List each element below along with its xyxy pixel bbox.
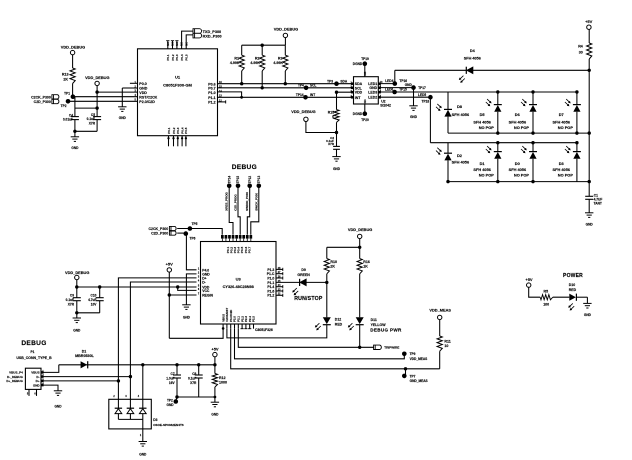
svg-text:TANT: TANT — [594, 201, 602, 205]
wire SCL net P0.7 to U2 — [218, 87, 354, 89]
wire U2 LED3 to LED row1 bus — [378, 91, 577, 93]
wire U3 VCC jog — [178, 287, 197, 290]
svg-text:C2CK_P300: C2CK_P300 — [31, 95, 51, 99]
svg-text:TP15: TP15 — [236, 176, 240, 184]
svg-text:R1: R1 — [234, 56, 239, 60]
wire VDD_MEAS to R11 — [439, 320, 441, 336]
wire VDD_DEBUG to U3 VDD — [77, 286, 197, 288]
wire +5V to U3 REGIN — [169, 294, 196, 296]
ground after D10 — [583, 302, 591, 304]
svg-text:GREEN: GREEN — [297, 273, 310, 277]
svg-text:GND: GND — [405, 83, 413, 87]
svg-text:TXD_P300: TXD_P300 — [203, 30, 222, 34]
svg-text:R3: R3 — [278, 56, 283, 60]
svg-text:GND: GND — [333, 167, 341, 171]
svg-text:D8: D8 — [457, 104, 463, 109]
svg-text:NC: NC — [166, 42, 170, 46]
svg-text:X7R: X7R — [190, 381, 197, 385]
svg-text:R12: R12 — [219, 376, 226, 380]
svg-text:GND: GND — [71, 146, 79, 150]
svg-text:P0.1: P0.1 — [166, 54, 170, 61]
svg-text:VDD_DEBUG: VDD_DEBUG — [85, 75, 109, 80]
svg-text:U1: U1 — [175, 75, 181, 80]
resistor R15 0 ohm on VDD — [337, 91, 354, 93]
svg-text:NC: NC — [175, 42, 179, 46]
U3 bottom NC ticks — [241, 328, 244, 330]
svg-text:DEBUG PWR: DEBUG PWR — [370, 328, 402, 333]
svg-text:GND: GND — [167, 403, 175, 407]
wire D+ down to TVS — [117, 381, 119, 399]
LED D1 SFH 4056 row2 — [496, 141, 499, 144]
svg-text:TP18: TP18 — [422, 100, 430, 104]
wire U2 GND to TP17 — [378, 87, 413, 89]
wire D12 to U3 C2CK pin — [227, 325, 327, 338]
svg-text:DEBUG: DEBUG — [21, 340, 46, 347]
svg-text:GND: GND — [33, 383, 41, 387]
svg-text:TP9: TP9 — [410, 352, 416, 356]
svg-text:SCL: SCL — [310, 83, 316, 87]
test point TP7 GND_MEAS — [405, 369, 407, 376]
wire D11 down to TRIPWIRE net — [359, 325, 361, 348]
svg-text:POWER: POWER — [563, 273, 583, 279]
svg-text:R4: R4 — [578, 45, 583, 49]
svg-text:TP7: TP7 — [410, 374, 416, 378]
wire LED4 net up to D4 — [394, 70, 396, 83]
svg-text:GND: GND — [410, 115, 418, 119]
svg-text:VCC: VCC — [202, 289, 210, 293]
U1 bottom pins stubs — [168, 136, 170, 147]
svg-text:TP19: TP19 — [361, 57, 369, 61]
wire U1 P0.0 stub — [130, 82, 138, 84]
svg-text:VDD_MEAS: VDD_MEAS — [429, 307, 451, 312]
LED D6 SFH 4056 row1 — [531, 90, 534, 93]
svg-text:CSOE-SP0032EN4T6: CSOE-SP0032EN4T6 — [153, 423, 184, 427]
svg-text:D6: D6 — [515, 112, 521, 117]
header pads row — [221, 235, 224, 239]
svg-text:VDD_DEBUG: VDD_DEBUG — [348, 227, 372, 232]
svg-text:GND: GND — [369, 86, 377, 90]
svg-text:TP5: TP5 — [192, 222, 198, 226]
svg-text:P0.2: P0.2 — [171, 54, 175, 61]
wire C1 to ground — [588, 199, 590, 213]
wire LED row1 bottom bus — [448, 132, 589, 134]
svg-text:GND: GND — [54, 404, 62, 408]
wire TP2 to U1 P2.0/C2D — [68, 100, 138, 102]
P1 pin pads — [41, 371, 44, 374]
svg-text:2: 2 — [198, 272, 200, 274]
wire D+ net — [41, 380, 118, 382]
led D11 YELLOW DEBUG PWR — [356, 317, 364, 324]
svg-text:D1: D1 — [82, 349, 87, 353]
svg-text:D+_DEBUG: D+_DEBUG — [6, 379, 23, 383]
svg-text:VDD_DEBUG: VDD_DEBUG — [61, 45, 85, 50]
svg-text:GND_MEAS: GND_MEAS — [410, 379, 428, 383]
wire TP19 to U2 NC top — [364, 64, 366, 77]
svg-text:P0.5: P0.5 — [185, 54, 189, 61]
svg-text:D1: D1 — [480, 161, 486, 166]
ground below TP17 — [409, 105, 417, 107]
wire U3 pin to TP9 VDD_MEAS — [235, 329, 405, 359]
wire R3 to SDA net — [284, 71, 286, 84]
svg-text:P1.1: P1.1 — [208, 96, 215, 100]
svg-text:P1.0: P1.0 — [208, 91, 215, 95]
wire R12 to ground — [214, 387, 216, 402]
svg-text:DEBUG: DEBUG — [232, 164, 257, 171]
wire TP1 to U1 RST/C2CK — [73, 96, 138, 98]
wire D- net — [41, 376, 130, 378]
wire +5V to U3 VBUS bottom pin — [169, 329, 223, 339]
svg-text:NO POP: NO POP — [558, 172, 574, 177]
svg-text:USB_CONN_TYPE_B: USB_CONN_TYPE_B — [16, 356, 52, 360]
svg-text:TP4: TP4 — [298, 83, 304, 87]
svg-text:YELLOW: YELLOW — [371, 323, 387, 327]
svg-text:NO POP: NO POP — [558, 125, 574, 130]
svg-text:D3: D3 — [559, 161, 565, 166]
svg-text:C2D_P300: C2D_P300 — [34, 100, 51, 104]
svg-text:LED5: LED5 — [418, 93, 426, 97]
svg-text:C8051F300-GM: C8051F300-GM — [163, 82, 192, 87]
ground below R12 — [211, 401, 219, 403]
svg-text:5: 5 — [198, 286, 200, 288]
svg-text:NO POP: NO POP — [514, 125, 530, 130]
connector RXD_P300 — [193, 33, 202, 38]
svg-text:P0.4: P0.4 — [180, 54, 184, 61]
wire R4 down the LED return rail — [588, 59, 590, 196]
wire R15 to VDD_DEBUG — [306, 121, 337, 132]
svg-text:CY326-48C28N98: CY326-48C28N98 — [223, 285, 254, 289]
svg-text:D4: D4 — [470, 49, 476, 53]
wire +5V to R5 — [529, 287, 541, 297]
wire TP6 down to U3 P4.0 — [177, 232, 186, 234]
wire D4 to +5V rail — [473, 69, 589, 71]
svg-text:NC: NC — [363, 99, 367, 103]
svg-text:4.99K: 4.99K — [273, 61, 283, 65]
svg-text:16V: 16V — [169, 381, 176, 385]
ic U1 C8051F300-GM — [138, 49, 218, 136]
svg-text:VDD_MEAS: VDD_MEAS — [410, 357, 428, 361]
svg-text:R16: R16 — [363, 260, 370, 264]
U3 right NC stubs — [276, 268, 283, 270]
svg-text:P1.2: P1.2 — [267, 294, 274, 298]
svg-text:TP13: TP13 — [257, 176, 261, 184]
capacitor C2 0.1uF X7R — [336, 133, 338, 147]
svg-text:+5V: +5V — [585, 19, 593, 24]
LED D8 SFH 4056 row1 — [447, 92, 449, 109]
wire U1 P0.5 to RXD connector — [186, 35, 193, 49]
ground below D3 — [139, 441, 147, 443]
wire VBUS to D13 — [41, 365, 59, 373]
svg-text:TP20: TP20 — [361, 118, 369, 122]
svg-text:D3: D3 — [153, 418, 157, 422]
ground below C1 — [585, 212, 593, 214]
svg-text:TP2: TP2 — [167, 398, 173, 402]
wire C4 branch from TP1 line — [74, 97, 76, 117]
svg-text:TP15: TP15 — [399, 88, 407, 92]
svg-text:R15: R15 — [328, 111, 334, 115]
svg-text:NO POP: NO POP — [479, 172, 495, 177]
resistor R16 1K — [357, 259, 362, 274]
LED D3 SFH 4056 row2 — [575, 141, 578, 144]
svg-text:D10: D10 — [569, 283, 575, 287]
wire VDD_DEBUG down to caps — [76, 280, 78, 298]
wire U1 VDD pin — [97, 91, 137, 93]
svg-text:2: 2 — [113, 396, 115, 398]
svg-text:D5: D5 — [480, 112, 486, 117]
ground below C4 C5 — [71, 136, 79, 138]
svg-text:SFH 4056: SFH 4056 — [452, 159, 470, 164]
ground at U1 GND pin — [118, 106, 126, 108]
svg-text:R5: R5 — [543, 290, 548, 294]
svg-text:D2: D2 — [457, 153, 463, 158]
svg-text:NO POP: NO POP — [479, 125, 495, 130]
svg-text:DGND: DGND — [353, 62, 363, 66]
svg-text:1: 1 — [140, 435, 142, 437]
svg-text:GND: GND — [73, 328, 81, 332]
U1 top pins NC stubs — [167, 41, 169, 49]
svg-text:SWCK_P300: SWCK_P300 — [254, 193, 258, 211]
wire +5V down to REGIN and bottom — [168, 272, 170, 338]
wire R10 to D12 — [326, 274, 328, 318]
svg-text:RST/C2CK: RST/C2CK — [139, 95, 157, 99]
wire TP18 down to LED row2 bus — [429, 97, 431, 143]
wire U2 LED2 to TP18 — [378, 96, 430, 98]
svg-text:10: 10 — [444, 344, 448, 348]
svg-text:1000: 1000 — [219, 381, 227, 385]
svg-text:SDA: SDA — [340, 79, 347, 83]
svg-text:D0: D0 — [515, 161, 520, 166]
wire D- down to TVS — [129, 377, 131, 400]
svg-text:C2CK_P300: C2CK_P300 — [149, 227, 169, 231]
test point TP9 VDD_MEAS — [402, 352, 407, 357]
svg-text:R2: R2 — [255, 56, 260, 60]
wire TP14 to header — [229, 186, 233, 235]
svg-text:2K: 2K — [63, 78, 68, 82]
ground below C9 C10 — [73, 317, 81, 319]
svg-text:GND: GND — [586, 223, 594, 227]
wire GND_MEAS horizontal — [231, 329, 440, 369]
svg-text:+5V: +5V — [211, 346, 219, 351]
wire +5V down to TVS — [142, 365, 144, 400]
TVS diode 2 in D3 — [129, 399, 131, 408]
ground below C2 — [332, 156, 340, 158]
svg-text:R11: R11 — [444, 339, 450, 343]
wire cap rail — [75, 107, 97, 109]
svg-text:RED: RED — [335, 322, 343, 326]
svg-text:7: 7 — [198, 294, 200, 296]
svg-text:TP17: TP17 — [418, 86, 426, 90]
svg-text:2K: 2K — [330, 265, 335, 269]
svg-text:SFH 4056: SFH 4056 — [553, 120, 571, 125]
svg-text:SFH 4056: SFH 4056 — [464, 56, 481, 60]
test point TP20 DGND at U2 bottom — [364, 104, 366, 114]
wire D- riser to U3 — [130, 282, 196, 377]
TVS array D3 CSOE-SP0032EN4T6 box — [109, 399, 152, 429]
svg-text:RXD_P300: RXD_P300 — [203, 35, 222, 39]
svg-text:P1.2: P1.2 — [208, 100, 215, 104]
wire TP13 to header — [251, 186, 259, 235]
svg-text:TP6: TP6 — [190, 236, 196, 240]
led D12 RED — [323, 317, 331, 324]
test point TP2 GND bottom — [176, 397, 177, 401]
svg-text:VDD_DEBUG: VDD_DEBUG — [291, 109, 315, 114]
svg-text:3: 3 — [125, 396, 127, 398]
wire C9 C10 bottoms to ground — [76, 301, 78, 313]
svg-text:P0.0: P0.0 — [139, 82, 146, 86]
svg-text:1K: 1K — [363, 265, 368, 269]
svg-text:GND: GND — [139, 452, 147, 456]
wire D9 to R10 D12 node — [306, 281, 327, 283]
svg-text:C8051F326: C8051F326 — [255, 328, 273, 332]
svg-text:4: 4 — [198, 280, 200, 283]
ic U2 SI1042 — [354, 77, 379, 104]
svg-text:C2D_P300: C2D_P300 — [151, 232, 168, 236]
svg-text:LED6: LED6 — [385, 88, 393, 92]
svg-text:30: 30 — [579, 51, 583, 55]
svg-text:INT: INT — [310, 93, 315, 97]
junction +5V rail to TVS — [141, 363, 144, 366]
wire caps to ground — [74, 120, 76, 132]
svg-text:GND: GND — [119, 116, 127, 120]
LED D0 SFH 4056 row2 — [531, 141, 534, 144]
P1 shield stubs — [28, 389, 30, 396]
wire TP12 to header — [247, 186, 249, 235]
wire SDA net P0.6 to U2 — [218, 83, 354, 85]
svg-text:D12: D12 — [335, 318, 341, 322]
TVS diode 3 in D3 — [142, 399, 144, 408]
ground below P1 — [54, 390, 62, 392]
svg-text:D7: D7 — [559, 112, 564, 117]
svg-text:3: 3 — [198, 276, 200, 278]
LED D7 SFH 4056 row1 — [575, 90, 578, 93]
wire U1 GND pin to ground — [122, 87, 137, 89]
svg-text:P0.3: P0.3 — [175, 54, 179, 61]
svg-text:TRIPWIRE: TRIPWIRE — [384, 346, 399, 350]
wire TP17 to ground — [413, 88, 415, 106]
wire D+ riser to U3 — [118, 278, 196, 381]
wire R11 down to GND_MEAS net — [439, 351, 441, 369]
wire TVS common — [117, 414, 119, 420]
svg-text:TP14: TP14 — [227, 176, 231, 184]
svg-text:10V: 10V — [91, 302, 98, 306]
svg-text:NO POP: NO POP — [514, 172, 530, 177]
svg-text:RED: RED — [569, 288, 577, 292]
svg-text:SWDIO_P300: SWDIO_P300 — [245, 192, 249, 211]
svg-text:SI1042: SI1042 — [380, 104, 391, 108]
svg-text:REGIN: REGIN — [202, 294, 213, 298]
svg-text:U3: U3 — [236, 276, 242, 281]
svg-text:1: 1 — [198, 268, 200, 270]
wire LED row2 bottom bus — [448, 181, 589, 183]
wire R5 to D10 — [553, 296, 570, 298]
svg-text:GND: GND — [183, 315, 191, 319]
svg-text:DGND: DGND — [353, 112, 363, 116]
svg-text:SFH 4056: SFH 4056 — [473, 120, 491, 125]
wire TP15 to header — [238, 186, 240, 235]
svg-text:+5V: +5V — [166, 262, 174, 267]
wire VDD_DEBUG to R13 — [72, 55, 74, 68]
wire VDD_DEBUG to R10 R16 rail — [359, 239, 361, 259]
header pad stubs into U3 — [221, 239, 223, 242]
svg-text:GND: GND — [584, 313, 592, 317]
svg-text:X7R: X7R — [328, 142, 335, 146]
svg-text:D9: D9 — [301, 268, 306, 272]
svg-text:LED3: LED3 — [368, 91, 377, 95]
svg-text:R10: R10 — [330, 260, 337, 264]
wire R13 to TP1 — [72, 84, 74, 97]
svg-text:R13: R13 — [62, 72, 69, 76]
wire VDD_DEBUG rail to resistors — [284, 38, 286, 46]
svg-text:GND: GND — [211, 413, 219, 417]
resistor R11 10 — [437, 336, 442, 351]
wire +5V to R4 — [588, 29, 590, 43]
wire INT net P1.1 to U2 — [218, 96, 354, 98]
svg-text:P0.7: P0.7 — [208, 87, 215, 91]
svg-text:XRES_PROG: XRES_PROG — [225, 191, 229, 210]
wire C2 to ground — [336, 149, 338, 156]
wire U3 P1.1 to D9 — [276, 281, 300, 283]
svg-text:P1.0: P1.0 — [267, 276, 274, 280]
svg-text:VDD_DEBUG: VDD_DEBUG — [65, 270, 89, 275]
svg-text:MBR0530L: MBR0530L — [75, 354, 95, 358]
connector P1 USB type B — [25, 368, 41, 389]
wire U3 GND pin to ground — [186, 274, 196, 305]
wire TVS to ground pin1 — [142, 419, 144, 441]
wire R16 to D11 — [359, 274, 361, 318]
svg-text:LED2: LED2 — [368, 96, 377, 100]
wire C7 C8 bottoms tied — [176, 378, 178, 397]
svg-text:P1: P1 — [31, 350, 35, 354]
U2 pin pads — [351, 82, 354, 85]
svg-text:VDD: VDD — [355, 91, 363, 95]
svg-text:X7R: X7R — [89, 122, 96, 126]
svg-text:SFH 4056: SFH 4056 — [452, 112, 470, 117]
svg-text:P2.5: P2.5 — [252, 316, 256, 322]
svg-text:TP1: TP1 — [64, 92, 70, 96]
wire +5V rail to USB VBUS — [59, 364, 215, 366]
wire U3 P3.0 to TRIPWIRE — [238, 329, 374, 348]
svg-text:C2D_PROG: C2D_PROG — [234, 194, 238, 211]
svg-text:P0.5: P0.5 — [184, 127, 188, 134]
svg-text:X7R: X7R — [68, 302, 75, 306]
U3 bottom pin stubs — [222, 324, 224, 329]
svg-text:SFH 4056: SFH 4056 — [509, 120, 527, 125]
svg-text:P2.0/C2D: P2.0/C2D — [139, 100, 155, 104]
connector TRIPWIRE — [374, 345, 382, 349]
wire C10 top to VDD rail — [99, 287, 101, 298]
svg-text:SCL: SCL — [355, 86, 363, 90]
svg-text:VDD_DEBUG: VDD_DEBUG — [274, 27, 298, 32]
wire R2 to SCL net — [261, 71, 263, 88]
capacitor C7 1.0uF 16V — [175, 363, 178, 366]
wire U1 P0.4 to TXD connector — [182, 31, 193, 49]
test point TP2 — [66, 99, 71, 104]
svg-text:TP2: TP2 — [61, 104, 67, 108]
TVS diode 1 in D3 — [117, 399, 119, 408]
svg-text:P0.7: P0.7 — [247, 247, 251, 254]
svg-text:TP3: TP3 — [327, 79, 333, 83]
U1 P1.2 NC stub — [218, 101, 226, 103]
wire D10 to ground — [576, 296, 587, 298]
svg-text:NC: NC — [171, 42, 175, 46]
LED D5 SFH 4056 row1 — [496, 90, 499, 93]
connector TXD_P300 — [193, 29, 202, 34]
wire R1 to SDA net — [241, 71, 243, 84]
svg-text:100: 100 — [543, 303, 549, 307]
svg-text:TP14: TP14 — [296, 93, 304, 97]
svg-text:D-: D- — [202, 281, 206, 285]
ground at U3 GND — [182, 304, 190, 306]
svg-text:TP12: TP12 — [248, 176, 252, 184]
